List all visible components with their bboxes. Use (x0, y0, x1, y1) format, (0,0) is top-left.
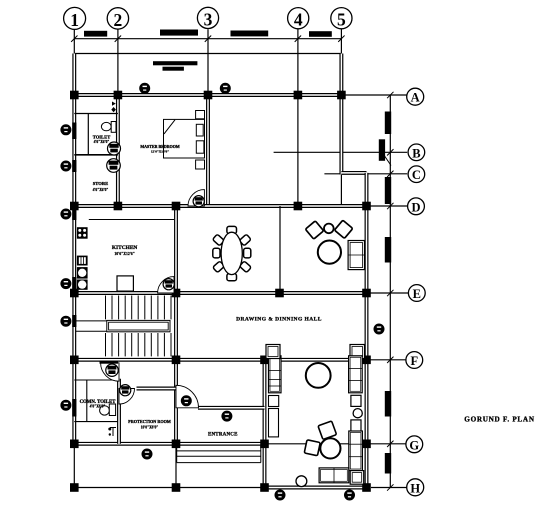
column H x=366.5 (362, 483, 371, 492)
level marks bedroom entry (111, 102, 116, 113)
svg-text:1: 1 (70, 10, 79, 30)
grid line 1 stub (73, 29, 75, 53)
dining chair bottom (227, 274, 237, 281)
drawing sofa vertical (348, 241, 364, 270)
column D x=366.5 (362, 202, 371, 211)
column H x=176 (172, 483, 181, 492)
svg-text:4: 4 (294, 10, 303, 30)
label store (93, 181, 109, 192)
grid line B (274, 151, 408, 153)
wall grid 3 A-D (206, 95, 210, 206)
svg-text:B: B (412, 146, 420, 160)
label protection room (128, 419, 171, 429)
common toilet top line (74, 379, 119, 381)
tag entrance door (222, 411, 232, 421)
wall at G (74, 442, 264, 446)
boundary pier bar C-D (385, 177, 391, 204)
sofa side circle (353, 409, 362, 418)
dimension bar between grid 1-2 (84, 31, 107, 37)
label common toilet (80, 400, 117, 409)
window bar left wall y=399 (72, 399, 76, 417)
door kitchen at E (158, 277, 174, 293)
tag door D2 (120, 385, 131, 396)
grid bubble E (408, 285, 425, 302)
cabinet cap above F right (350, 345, 365, 359)
entrance top wall (198, 406, 265, 410)
tick top line grid 3 (205, 36, 211, 42)
grid bubble C (408, 166, 425, 183)
svg-text:4'0"X8'0": 4'0"X8'0" (90, 404, 106, 408)
kitchen unit circle 2 (77, 280, 88, 290)
column F x=176 (172, 356, 181, 365)
kitchen unit circle 1 (77, 267, 88, 279)
dining chair lower-left (213, 261, 225, 273)
tag door D1 (193, 196, 204, 207)
column F x=74.3 (70, 356, 79, 365)
window tag left wall y=321.2 (61, 316, 71, 326)
WC toilet top-left (101, 122, 116, 133)
tag toilet door lower (107, 159, 121, 173)
grid bubble 4 (288, 8, 309, 30)
svg-text:E: E (413, 287, 421, 301)
grid line 3 stub (207, 29, 209, 95)
column G x=176 (172, 440, 181, 449)
column E x=176 (172, 289, 181, 298)
left exterior wall grid 1 (72, 54, 76, 444)
wall at E (74, 291, 366, 295)
door D2 common toilet (119, 389, 135, 405)
column D x=74.3 (70, 202, 79, 211)
tag below H wall right (344, 490, 354, 500)
kitchen top counter line (89, 219, 174, 221)
window bar left wall y=122.5 (72, 123, 76, 140)
stair treads lower flight (106, 333, 172, 356)
window tag left wall y=129.8 (61, 125, 71, 135)
column H x=74.3 (70, 483, 79, 492)
hall round table (306, 363, 331, 388)
grid line D right (371, 205, 408, 207)
svg-text:4'6"X6'0": 4'6"X6'0" (93, 188, 109, 192)
svg-text:10'0"X8'0": 10'0"X8'0" (141, 425, 159, 429)
diagonal connector near B (385, 156, 391, 166)
wall grid 2 A-D (116, 95, 120, 206)
grid bubble D (408, 198, 425, 215)
svg-text:TOILET: TOILET (93, 135, 111, 140)
column E x=366.5 (362, 289, 371, 298)
hall small circle bottom (296, 476, 307, 487)
stair handrail (76, 320, 170, 331)
sofa seat square 1 (351, 395, 361, 406)
grid bubble A (407, 88, 424, 105)
wall at D (74, 204, 366, 208)
drawing round table (318, 241, 341, 264)
left line G-H (73, 444, 75, 488)
right exterior wall C-H (365, 173, 369, 488)
toilet left partition (87, 114, 89, 155)
pillow 2 (196, 141, 204, 153)
grid line 2 stub (117, 29, 119, 95)
verandah label bar 1 (153, 61, 197, 65)
grid bubble B (408, 144, 425, 161)
tick boundary at C (387, 171, 393, 177)
tag on wall A right (220, 83, 230, 93)
grid line 4 full (297, 29, 299, 208)
common toilet lower partition (74, 421, 119, 423)
grid bubble 2 (107, 8, 128, 30)
column E x=279.5 (275, 289, 284, 298)
bed master bedroom (164, 119, 205, 158)
svg-text:A: A (411, 91, 420, 105)
door entrance hall (176, 385, 199, 408)
svg-text:MASTER BEDROOM: MASTER BEDROOM (140, 144, 179, 149)
column F x=264.5 (260, 356, 269, 365)
column A x=117.9 (114, 91, 123, 100)
dining chair upper-left (212, 234, 224, 246)
column G x=264.5 (260, 440, 269, 449)
window bar left wall y=209 (72, 209, 76, 220)
wardrobe along entrance wall (269, 356, 282, 393)
tick boundary at A (387, 92, 393, 98)
hall round table lower (320, 438, 340, 458)
boundary pier bar A-B (385, 112, 391, 135)
boundary pier bar G-H (385, 453, 391, 474)
svg-text:D: D (411, 200, 420, 214)
svg-text:5: 5 (337, 10, 346, 30)
bedside table top (196, 111, 205, 119)
boundary pier bar E-F (385, 391, 391, 417)
tag kitchen door (163, 279, 174, 290)
verandah label bar 2 (163, 67, 184, 71)
svg-text:DRAWING & DINNING HALL: DRAWING & DINNING HALL (236, 316, 322, 322)
bedside table bottom (196, 160, 205, 169)
toilet/store partition (74, 154, 118, 156)
tick boundary at H (387, 484, 393, 490)
common toilet shower partition (86, 380, 88, 422)
svg-text:10'6"X12'6": 10'6"X12'6" (114, 252, 134, 256)
sofa unit right wall lower (349, 431, 363, 471)
label master bedroom (140, 144, 179, 154)
hall chair rotated upper (318, 421, 337, 440)
tag below H wall left (275, 490, 285, 500)
tick top line grid 1 (71, 36, 77, 42)
window bar left wall y=315 (72, 315, 76, 327)
window tag left wall y=214 (61, 209, 71, 219)
grid line E right (371, 292, 409, 294)
common toilet right wall (117, 379, 121, 444)
drawing chair rotated right (334, 220, 352, 238)
dining chair top (227, 226, 237, 233)
column H x=264.5 (260, 483, 269, 492)
svg-text:GORUND F. PLAN: GORUND F. PLAN (464, 416, 535, 424)
line x=176 G-H (175, 444, 177, 488)
right boundary line x=390 (389, 95, 391, 488)
column A x=74.3 (70, 91, 79, 100)
wall x=264.5 F-H (263, 360, 267, 488)
svg-text:2: 2 (114, 10, 123, 30)
line at H left (74, 487, 264, 489)
kitchen sink (77, 256, 88, 266)
dimension bar between grid 4-5 (309, 31, 332, 37)
grid line C (324, 173, 407, 175)
entrance steps (177, 446, 261, 463)
grid bubble H (407, 479, 424, 496)
grid line A right (345, 94, 407, 96)
hall sofa corner square (350, 471, 364, 485)
column D x=117.9 (114, 202, 123, 211)
column D x=297.9 (294, 202, 303, 211)
dining table (221, 232, 242, 274)
hall sofa bottom (319, 468, 349, 483)
grid line 5 lower stub (340, 175, 342, 207)
door D3 at F (100, 361, 120, 381)
toilet top partition (74, 113, 118, 115)
svg-text:STORE: STORE (93, 181, 109, 186)
svg-text:KITCHEN: KITCHEN (112, 245, 138, 251)
wall jog at C (341, 171, 366, 175)
grid line 5 stub (340, 29, 342, 53)
grid line H right (371, 487, 407, 489)
svg-text:G: G (409, 438, 419, 452)
grid line G through hall (265, 443, 367, 445)
window bar left wall y=160 (72, 160, 76, 172)
drawing chair rotated left (305, 221, 323, 239)
column A x=341.4 (337, 91, 346, 100)
kitchen stove (77, 227, 88, 239)
cabinet cap above F left (266, 345, 280, 359)
svg-text:3: 3 (204, 9, 213, 29)
column A x=297.9 (294, 91, 303, 100)
dimension bar between grid 3-4 (231, 31, 269, 37)
dimension bar between grid 2-3 (160, 30, 198, 36)
protection room top wall (137, 387, 177, 391)
window tag left wall y=166 (61, 161, 71, 171)
grid bubble 5 (331, 8, 352, 30)
tick top line grid 5 (338, 36, 344, 42)
tag entrance hall door (181, 396, 191, 406)
tick boundary at B (387, 149, 393, 155)
wall grid 5 top-C (339, 54, 343, 175)
svg-text:F: F (410, 354, 418, 368)
wall at F (74, 358, 366, 362)
dining chair right mid (244, 248, 251, 258)
partition dining/drawing x=280 (279, 206, 281, 293)
verandah front line y=53.5 (74, 53, 341, 55)
tick grid 4 at D (295, 203, 301, 209)
stair treads upper flight (106, 296, 172, 320)
column D x=176 (172, 202, 181, 211)
tag hall right window (374, 324, 384, 334)
sofa unit right wall upper (349, 356, 363, 393)
svg-text:ENTRANCE: ENTRANCE (208, 433, 238, 438)
cabinet below wardrobe (269, 396, 279, 407)
door D1 master bedroom (188, 190, 204, 206)
tick boundary at G (387, 441, 393, 447)
kitchen table (117, 276, 133, 291)
tick boundary at D (387, 203, 393, 209)
label kitchen (112, 245, 138, 256)
grid bubble G (406, 436, 423, 453)
cabinet tall below (269, 409, 279, 437)
tag toilet door upper (108, 142, 121, 155)
column A x=208 (204, 91, 213, 100)
svg-text:12'0"X14'6": 12'0"X14'6" (151, 150, 169, 154)
grid line G right (371, 443, 406, 445)
sofa seat square 2 (351, 420, 361, 431)
door swing mark entrance lobby (108, 427, 116, 436)
window bar left wall y=277 (72, 277, 76, 290)
svg-text:H: H (410, 481, 420, 495)
svg-text:C: C (412, 168, 421, 182)
WC common toilet (100, 404, 116, 416)
tick top line grid 4 (295, 36, 301, 42)
tag door D3 (106, 364, 118, 376)
label toilet (93, 135, 111, 145)
window tag left wall y=405.2 (61, 400, 71, 410)
window tag left wall y=283.6 (61, 279, 71, 289)
boundary pier bar D-E (385, 237, 391, 263)
tick boundary at E (387, 290, 393, 296)
column G x=74.3 (70, 440, 79, 449)
tick boundary at F (387, 357, 393, 363)
tag below G wall (142, 449, 152, 459)
grid bubble 1 (64, 7, 86, 29)
wall at H portico (265, 486, 367, 490)
column F x=366.5 (362, 356, 371, 365)
grid line F right (371, 359, 406, 361)
dining chair left mid (213, 248, 220, 258)
dining chair upper-right (239, 234, 251, 246)
svg-text:4'6"X6'0": 4'6"X6'0" (94, 140, 110, 144)
pillow 1 (196, 124, 203, 136)
drawing side circle (324, 224, 334, 234)
top dimension line y=38.7 (74, 38, 341, 40)
dining chair lower-right (239, 261, 251, 273)
hall chair rotated left (304, 440, 320, 456)
grid bubble F (406, 352, 423, 369)
wall x=176 D-G (174, 206, 178, 444)
svg-text:PROTECTION ROOM: PROTECTION ROOM (128, 419, 171, 424)
grid bubble 3 (197, 7, 218, 29)
front wall at A (74, 93, 341, 97)
tick top line grid 2 (115, 36, 121, 42)
column E x=74.3 (70, 289, 79, 298)
boundary pier bar at B (379, 139, 385, 161)
column G x=366.5 (362, 440, 371, 449)
tag on wall A left (140, 83, 150, 93)
